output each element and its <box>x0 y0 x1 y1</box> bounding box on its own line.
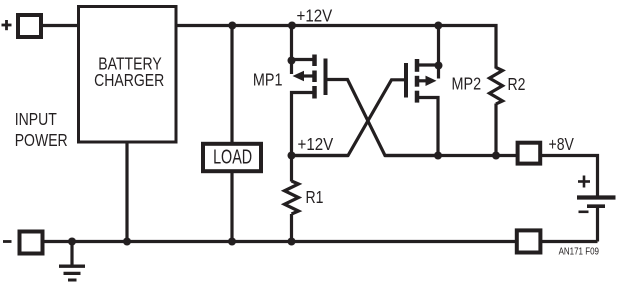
resistor R2 <box>490 68 503 104</box>
transistor MP1 channel segments <box>312 55 317 99</box>
svg-text:+8V: +8V <box>549 134 575 154</box>
wire bottom ground rail <box>43 240 516 243</box>
junction dot MP1 source <box>288 57 296 65</box>
transistor MP2 channel segments <box>415 59 420 103</box>
wire load bottom lead <box>230 173 233 242</box>
battery B1 negative plate <box>587 204 605 208</box>
wire +12V low node to MP2 gate corner <box>292 154 349 157</box>
svg-text:POWER: POWER <box>15 130 68 150</box>
wire top +12V rail <box>176 26 496 69</box>
junction dot R1 return <box>288 238 296 246</box>
resistor R1 <box>285 181 299 214</box>
load box <box>203 144 261 171</box>
svg-text:CHARGER: CHARGER <box>94 71 164 91</box>
wire load top lead <box>230 27 233 142</box>
transistor MP1 body arrow <box>293 71 305 81</box>
transistor MP1 body stub <box>303 74 313 77</box>
ground bars <box>59 266 85 280</box>
battery minus marking <box>579 211 589 214</box>
terminal box output return <box>517 230 541 252</box>
svg-text:+12V: +12V <box>298 134 334 155</box>
input minus marking <box>3 240 12 243</box>
junction dot top MP1 <box>288 22 296 30</box>
transistor MP1 source stub <box>292 58 314 61</box>
transistor MP2 body arrow <box>426 76 437 86</box>
transistor MP1 source rail <box>290 24 293 74</box>
svg-text:MP2: MP2 <box>452 74 482 94</box>
svg-text:MP1: MP1 <box>253 70 283 90</box>
transistor MP2 body stub <box>417 79 427 82</box>
wire MP2 drain node to +8V box <box>385 154 517 157</box>
svg-text:R1: R1 <box>306 187 324 207</box>
wire MP2 gate cross-couple to +12V low node <box>292 80 405 156</box>
svg-text:+12V: +12V <box>297 5 333 26</box>
wire bottom output rail segment <box>542 240 598 243</box>
svg-text:LOAD: LOAD <box>213 145 252 168</box>
svg-text:AN171 F09: AN171 F09 <box>559 245 599 256</box>
wire R1 top lead <box>290 156 293 182</box>
terminal box +8V output <box>518 143 541 164</box>
junction dot top load <box>228 22 236 30</box>
junction dot ground tap <box>68 238 76 246</box>
transistor MP1 drain stub <box>292 93 314 156</box>
junction dot +12V low node <box>288 152 296 160</box>
junction dot charger return <box>123 238 131 246</box>
battery B1 positive plate <box>577 195 616 199</box>
terminal box input minus <box>20 232 43 254</box>
wire MP1 gate cross-couple to MP2 drain node <box>328 80 439 156</box>
wire battery bottom to output box <box>596 205 599 242</box>
junction dot MP2 source <box>435 62 443 70</box>
junction dot top MP2 <box>434 22 442 30</box>
junction dot R2 bottom <box>492 152 500 160</box>
transistor MP1 gate bar <box>324 59 328 96</box>
junction dot load return <box>228 238 236 246</box>
battery plus marking <box>578 176 590 188</box>
ground lead <box>70 242 73 266</box>
wire R2 bottom lead <box>494 104 497 156</box>
svg-text:R2: R2 <box>508 74 526 94</box>
transistor MP2 source rail <box>437 24 440 79</box>
transistor MP2 gate bar <box>404 63 408 98</box>
svg-text:INPUT: INPUT <box>15 110 57 130</box>
wire +8V box to battery <box>541 156 598 197</box>
transistor MP2 source stub <box>417 63 439 66</box>
wire input plus to charger <box>41 24 79 27</box>
transistor MP2 drain stub <box>417 98 438 156</box>
junction dot MP2 drain node <box>434 152 442 160</box>
input plus marking <box>2 20 12 30</box>
battery charger box U1 <box>79 7 177 143</box>
wire R1 bottom lead <box>290 214 293 242</box>
terminal box input plus <box>18 15 41 37</box>
wire charger bottom lead <box>125 143 128 242</box>
